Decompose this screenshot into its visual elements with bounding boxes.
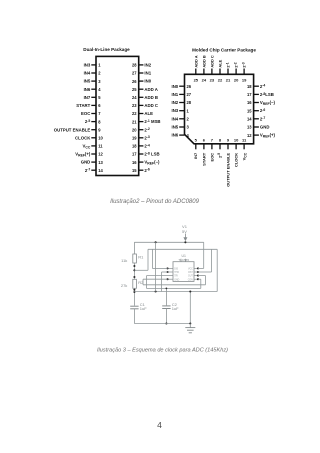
svg-text:EOC: EOC — [81, 111, 90, 116]
PLCC pin 15 (right, 2^{-6}) — [247, 108, 265, 113]
svg-text:IN1: IN1 — [172, 92, 179, 97]
svg-text:20: 20 — [132, 127, 137, 132]
svg-text:IN7: IN7 — [193, 152, 198, 159]
PLCC pin 19 (top, 2^{-3}) — [241, 62, 247, 82]
DIP pin 11 (VCC) — [83, 144, 104, 150]
wire: top rail down to U1 right pin 1 — [198, 242, 204, 268]
svg-text:21: 21 — [226, 77, 231, 82]
DIP pin 7 (EOC) — [81, 111, 101, 116]
wire: U1 left pin 3 link — [147, 276, 168, 289]
node: junction at ground — [189, 322, 191, 324]
svg-text:5: 5 — [195, 138, 198, 143]
node: junction ground drop top — [189, 290, 191, 292]
svg-text:OUT: OUT — [188, 276, 193, 278]
node: U1 right pin dot — [197, 278, 199, 280]
PLCC pin 25 (top, ADD A) — [193, 55, 198, 82]
svg-text:11k: 11k — [121, 258, 127, 263]
PLCC pin 17 (right, 2^{-8}LSB) — [247, 92, 274, 97]
svg-text:VCC​: VCC​ — [83, 144, 91, 150]
PLCC pin 9 (bottom, OUTPUT ENABLE) — [225, 138, 230, 187]
node: R1 bottom junction — [133, 265, 135, 267]
node: C2 ground junction — [165, 322, 167, 324]
svg-text:2-2​: 2-2​ — [144, 127, 150, 132]
svg-text:GND: GND — [174, 279, 179, 281]
svg-text:22: 22 — [132, 111, 137, 116]
svg-text:2-4​: 2-4​ — [260, 84, 266, 89]
svg-text:GND: GND — [81, 160, 91, 165]
PLCC pin 27 (left, IN1) — [172, 92, 192, 97]
svg-text:IN1: IN1 — [144, 71, 151, 76]
DIP pin 25 (ADD A) — [132, 87, 158, 92]
svg-text:CON: CON — [188, 279, 193, 281]
node: R2 bottom junction — [133, 289, 135, 291]
svg-text:19: 19 — [132, 136, 137, 141]
svg-text:6: 6 — [203, 138, 206, 143]
svg-text:2-5​: 2-5​ — [217, 153, 222, 158]
node: U1 left pin dot — [166, 278, 168, 280]
svg-text:11: 11 — [98, 144, 103, 149]
svg-text:15: 15 — [247, 108, 252, 113]
svg-text:16: 16 — [247, 100, 252, 105]
svg-text:28: 28 — [187, 100, 192, 105]
DIP pin 5 (IN7) — [84, 95, 102, 100]
svg-text:10: 10 — [234, 138, 239, 143]
svg-text:Dual-In-Line Package: Dual-In-Line Package — [83, 47, 130, 52]
svg-text:25: 25 — [194, 77, 199, 82]
svg-text:ALE: ALE — [218, 59, 223, 67]
svg-text:5V: 5V — [182, 229, 187, 234]
svg-text:2: 2 — [187, 117, 190, 122]
svg-text:TLC555: TLC555 — [178, 258, 189, 262]
DIP pin 8 (2-5) — [85, 119, 101, 124]
DIP pin 26 (IN0) — [132, 79, 152, 84]
PLCC pin 12 (right, V_{REF}(+)) — [247, 133, 275, 139]
ground symbol — [185, 324, 195, 333]
U1 right pin OUT — [188, 276, 198, 278]
node: junction C2 branch — [166, 288, 168, 290]
node: junction reset riser on top rail — [155, 241, 157, 243]
svg-text:1uF: 1uF — [172, 306, 179, 311]
svg-text:8: 8 — [219, 138, 222, 143]
svg-text:14: 14 — [98, 168, 103, 173]
svg-text:IN5: IN5 — [84, 79, 91, 84]
svg-text:2-3​: 2-3​ — [241, 62, 246, 67]
DIP pin 27 (IN1) — [132, 71, 152, 76]
wire: U1 left pin 2 down to THR/TRI horizontal — [162, 272, 168, 292]
wire: C2 to ground rail — [165, 309, 167, 324]
DIP pin 16 (VREF(−)) — [132, 160, 160, 166]
svg-text:IN4: IN4 — [84, 71, 91, 76]
svg-text:1: 1 — [187, 108, 190, 113]
resistor R2 27k — [121, 279, 144, 288]
svg-text:2: 2 — [98, 71, 101, 76]
PLCC pin 13 (right, GND) — [247, 125, 269, 130]
svg-text:Ilustração 3 – Esquema de cloc: Ilustração 3 – Esquema de clock para ADC… — [97, 348, 228, 354]
svg-text:2-6​: 2-6​ — [144, 168, 150, 173]
svg-text:12: 12 — [247, 133, 252, 138]
svg-text:9: 9 — [227, 138, 230, 143]
DIP pin 10 (CLOCK) — [75, 135, 103, 140]
node: junction riser/THR horizontal — [155, 290, 157, 292]
svg-text:OUTPUT ENABLE: OUTPUT ENABLE — [54, 127, 91, 132]
svg-text:ALE: ALE — [144, 111, 153, 116]
PLCC pin 3 (left, IN5) — [172, 125, 190, 130]
wire: upper horizontal run — [148, 248, 217, 250]
svg-text:10: 10 — [98, 136, 103, 141]
svg-text:CLOCK: CLOCK — [234, 153, 239, 167]
svg-text:14: 14 — [247, 117, 252, 122]
PLCC pin 23 (top, ADD C) — [209, 55, 214, 82]
svg-text:IN0: IN0 — [172, 84, 179, 89]
svg-text:22: 22 — [218, 77, 223, 82]
svg-text:CLOCK: CLOCK — [75, 135, 91, 140]
svg-text:2-7​: 2-7​ — [85, 168, 91, 173]
svg-text:2-4​: 2-4​ — [144, 143, 150, 148]
page number — [157, 420, 162, 430]
svg-text:24: 24 — [132, 95, 137, 100]
caption: Ilustracao 3 — [97, 348, 228, 354]
svg-text:8: 8 — [98, 119, 101, 124]
svg-text:ADD B: ADD B — [201, 55, 206, 68]
svg-text:ADD C: ADD C — [144, 103, 158, 108]
svg-text:2-5​: 2-5​ — [85, 119, 91, 124]
svg-text:VREF​(−): VREF​(−) — [144, 160, 160, 166]
wire: riser up — [147, 249, 149, 270]
wire: rail down to R1 — [133, 242, 135, 254]
PLCC pin 6 (bottom, START) — [201, 138, 206, 166]
PLCC pin 7 (bottom, EOC) — [209, 138, 214, 162]
U1 left pin GND — [168, 279, 180, 281]
DIP pin 6 (START) — [76, 103, 101, 108]
svg-text:GND: GND — [260, 125, 270, 130]
DIP pin 13 (GND) — [81, 160, 104, 165]
node: U1 right pin dot — [197, 271, 199, 273]
svg-text:IN3: IN3 — [172, 108, 179, 113]
wire: R1 to R2 — [133, 263, 135, 279]
U1 right pin VCC — [188, 268, 198, 270]
svg-text:23: 23 — [132, 103, 137, 108]
PLCC pin 8 (bottom, 2^{-5}) — [217, 138, 222, 158]
PLCC pin 4 (left, IN6) — [172, 133, 190, 138]
svg-text:VREF​(+): VREF​(+) — [75, 152, 91, 158]
svg-text:Ilustração2 – Pinout do ADC080: Ilustração2 – Pinout do ADC0809 — [110, 199, 199, 205]
node: U1 right pin dot — [197, 275, 199, 277]
DIP pin 19 (2-3) — [132, 135, 150, 140]
svg-text:ADD C: ADD C — [209, 55, 214, 68]
U1 left pin THR — [168, 272, 180, 274]
svg-text:6: 6 — [98, 103, 101, 108]
U1 left pin DIS — [168, 268, 179, 270]
wire: U1 left pin 1 to upper run — [153, 249, 168, 268]
svg-text:TRI: TRI — [174, 276, 178, 278]
wire: C1 to ground rail — [133, 309, 135, 324]
svg-text:VREF​(+): VREF​(+) — [260, 133, 276, 139]
DIP pin 23 (ADD C) — [132, 103, 158, 108]
svg-text:7: 7 — [98, 111, 101, 116]
svg-text:2-8​ LSB: 2-8​ LSB — [144, 151, 159, 156]
PLCC pin 1 (left, IN3) — [172, 108, 190, 113]
svg-text:VCC: VCC — [188, 269, 193, 271]
source V1 5V — [182, 224, 188, 241]
svg-text:17: 17 — [132, 152, 137, 157]
resistor R1 11k — [121, 254, 144, 263]
PLCC pin 16 (right, V_{REF}(−)) — [247, 100, 275, 106]
wire: U1 right pin 3 wrap under IC to left pin 4 — [143, 276, 206, 285]
svg-text:15: 15 — [132, 168, 137, 173]
DIP pin 4 (IN6) — [84, 87, 102, 92]
svg-text:23: 23 — [210, 77, 215, 82]
DIP pin 22 (ALE) — [132, 111, 153, 116]
PLCC pin 26 (left, IN0) — [172, 84, 192, 89]
svg-text:VREF​(−): VREF​(−) — [260, 100, 276, 106]
svg-text:26: 26 — [132, 79, 137, 84]
svg-text:27: 27 — [132, 71, 137, 76]
capacitor C1 1uF — [130, 302, 147, 311]
svg-text:IN6: IN6 — [84, 87, 91, 92]
svg-text:4: 4 — [157, 420, 162, 430]
svg-text:Molded Chip Carrier Package: Molded Chip Carrier Package — [192, 48, 256, 53]
DIP pin 3 (IN5) — [84, 79, 102, 84]
svg-text:12: 12 — [98, 152, 103, 157]
svg-text:2-1​ MSB: 2-1​ MSB — [144, 119, 160, 124]
U1 left pin TRI — [168, 276, 179, 278]
PLCC pin 22 (top, ALE) — [218, 59, 223, 82]
DIP pin 9 (OUTPUT ENABLE) — [54, 127, 101, 132]
wire: down to U1 right pin 2 — [198, 249, 212, 272]
DIP pin 12 (VREF(+)) — [75, 152, 103, 158]
svg-text:1: 1 — [98, 63, 101, 68]
node: R1/R2 mid junction — [133, 269, 135, 271]
svg-text:11: 11 — [242, 138, 247, 143]
svg-text:3: 3 — [98, 79, 101, 84]
wire: outer loop right vertical — [216, 249, 218, 291]
svg-text:IN5: IN5 — [172, 125, 179, 130]
svg-text:IN4: IN4 — [172, 116, 179, 121]
DIP pin 20 (2-2) — [132, 127, 150, 132]
DIP pin 2 (IN4) — [84, 71, 102, 76]
node: U1 left pin dot — [166, 271, 168, 273]
svg-text:20: 20 — [234, 77, 239, 82]
svg-text:27k: 27k — [121, 283, 127, 288]
svg-text:IN0: IN0 — [144, 79, 151, 84]
svg-text:9: 9 — [98, 127, 101, 132]
PLCC pin 18 (right, 2^{-4}) — [247, 84, 265, 89]
PLCC package outline (chamfered bottom-left corner) — [185, 74, 254, 144]
PLCC pin 20 (top, 2^{-2}) — [233, 62, 239, 82]
svg-text:IN6: IN6 — [172, 133, 179, 138]
DIP package outline — [96, 56, 139, 175]
svg-text:ADD A: ADD A — [144, 87, 157, 92]
svg-text:24: 24 — [202, 77, 207, 82]
svg-text:RST: RST — [188, 272, 193, 274]
PLCC pin 11 (bottom, V_{CC}) — [242, 138, 248, 161]
DIP pin 18 (2-4) — [132, 143, 150, 148]
svg-text:28: 28 — [132, 63, 137, 68]
PLCC pin 28 (left, IN2) — [172, 100, 192, 105]
wire: THR/TRI horizontal from R2 bottom to outer loop — [134, 291, 217, 293]
svg-text:1uF: 1uF — [140, 306, 147, 311]
svg-text:5: 5 — [98, 95, 101, 100]
svg-text:18: 18 — [132, 144, 137, 149]
svg-text:R1: R1 — [138, 255, 144, 260]
svg-text:IN2: IN2 — [172, 100, 179, 105]
node: junction to THR/TRI wire — [133, 291, 135, 293]
svg-text:IN2: IN2 — [144, 63, 151, 68]
svg-text:4: 4 — [98, 87, 101, 92]
wire: reset riser from top rail — [155, 242, 157, 291]
wire: R1/R2 junction to riser — [134, 269, 148, 271]
svg-text:IN7: IN7 — [84, 95, 91, 100]
svg-text:IN3: IN3 — [84, 63, 91, 68]
svg-text:7: 7 — [211, 138, 214, 143]
svg-text:START: START — [201, 152, 206, 166]
U1 right pin CON — [188, 279, 198, 281]
svg-text:26: 26 — [187, 84, 192, 89]
DIP pin 14 (2-7) — [85, 168, 104, 173]
U1 right pin RST — [188, 272, 198, 274]
svg-text:START: START — [76, 103, 90, 108]
wire: U1 right pin 4 wrap to C2 — [147, 279, 201, 305]
PLCC pin 10 (bottom, CLOCK) — [234, 138, 240, 167]
DIP pin 21 (2-1 MSB) — [132, 119, 161, 124]
svg-text:4: 4 — [187, 133, 190, 138]
caption: Ilustracao 2 — [110, 199, 199, 205]
svg-text:3: 3 — [187, 125, 190, 130]
svg-text:18: 18 — [247, 84, 252, 89]
DIP pin 28 (IN2) — [132, 63, 152, 68]
svg-text:DIS: DIS — [174, 269, 178, 271]
DIP pin 15 (2-6) — [132, 168, 150, 173]
wire: ground drop vertical — [189, 292, 191, 325]
svg-text:2-8​LSB: 2-8​LSB — [260, 92, 274, 97]
svg-text:2-7​: 2-7​ — [260, 116, 266, 121]
node: junction V1 on top rail — [184, 241, 186, 243]
PLCC pin 24 (top, ADD B) — [201, 55, 206, 82]
svg-text:27: 27 — [187, 92, 192, 97]
wire: bottom ground rail — [134, 323, 190, 325]
DIP package title — [83, 47, 130, 52]
PLCC pin 5 (bottom, IN7) — [193, 138, 198, 159]
PLCC pin 2 (left, IN4) — [172, 116, 190, 121]
node: U1 right pin dot — [197, 267, 199, 269]
svg-text:17: 17 — [247, 92, 252, 97]
svg-text:2-6​: 2-6​ — [260, 108, 266, 113]
svg-text:2-3​: 2-3​ — [144, 135, 150, 140]
PLCC package title — [192, 48, 256, 53]
svg-text:OUTPUT ENABLE: OUTPUT ENABLE — [225, 152, 230, 186]
svg-text:EOC: EOC — [209, 153, 214, 162]
DIP pin 17 (2-8 LSB) — [132, 151, 160, 156]
IC U1 TLC555 — [173, 254, 194, 281]
svg-text:21: 21 — [132, 119, 137, 124]
svg-text:ADD B: ADD B — [144, 95, 158, 100]
svg-text:VCC​: VCC​ — [242, 152, 248, 160]
svg-text:ADD A: ADD A — [193, 55, 198, 67]
capacitor C2 1uF — [162, 302, 179, 311]
svg-text:16: 16 — [132, 160, 137, 165]
DIP pin 24 (ADD B) — [132, 95, 158, 100]
svg-text:THR: THR — [174, 272, 179, 274]
node: U1 left pin dot — [166, 267, 168, 269]
svg-text:2-1​: 2-1​ — [225, 62, 230, 67]
svg-text:19: 19 — [242, 77, 247, 82]
wire: R2 to C1 — [133, 288, 135, 305]
PLCC pin 14 (right, 2^{-7}) — [247, 116, 265, 121]
svg-text:13: 13 — [98, 160, 103, 165]
wire: top VCC rail — [134, 241, 203, 243]
svg-text:2-2​: 2-2​ — [233, 62, 238, 67]
PLCC pin 21 (top, 2^{-1}) — [225, 62, 231, 82]
DIP pin 1 (IN3) — [84, 63, 102, 68]
svg-text:25: 25 — [132, 87, 137, 92]
svg-text:13: 13 — [247, 125, 252, 130]
node: R2 top junction — [133, 276, 135, 278]
